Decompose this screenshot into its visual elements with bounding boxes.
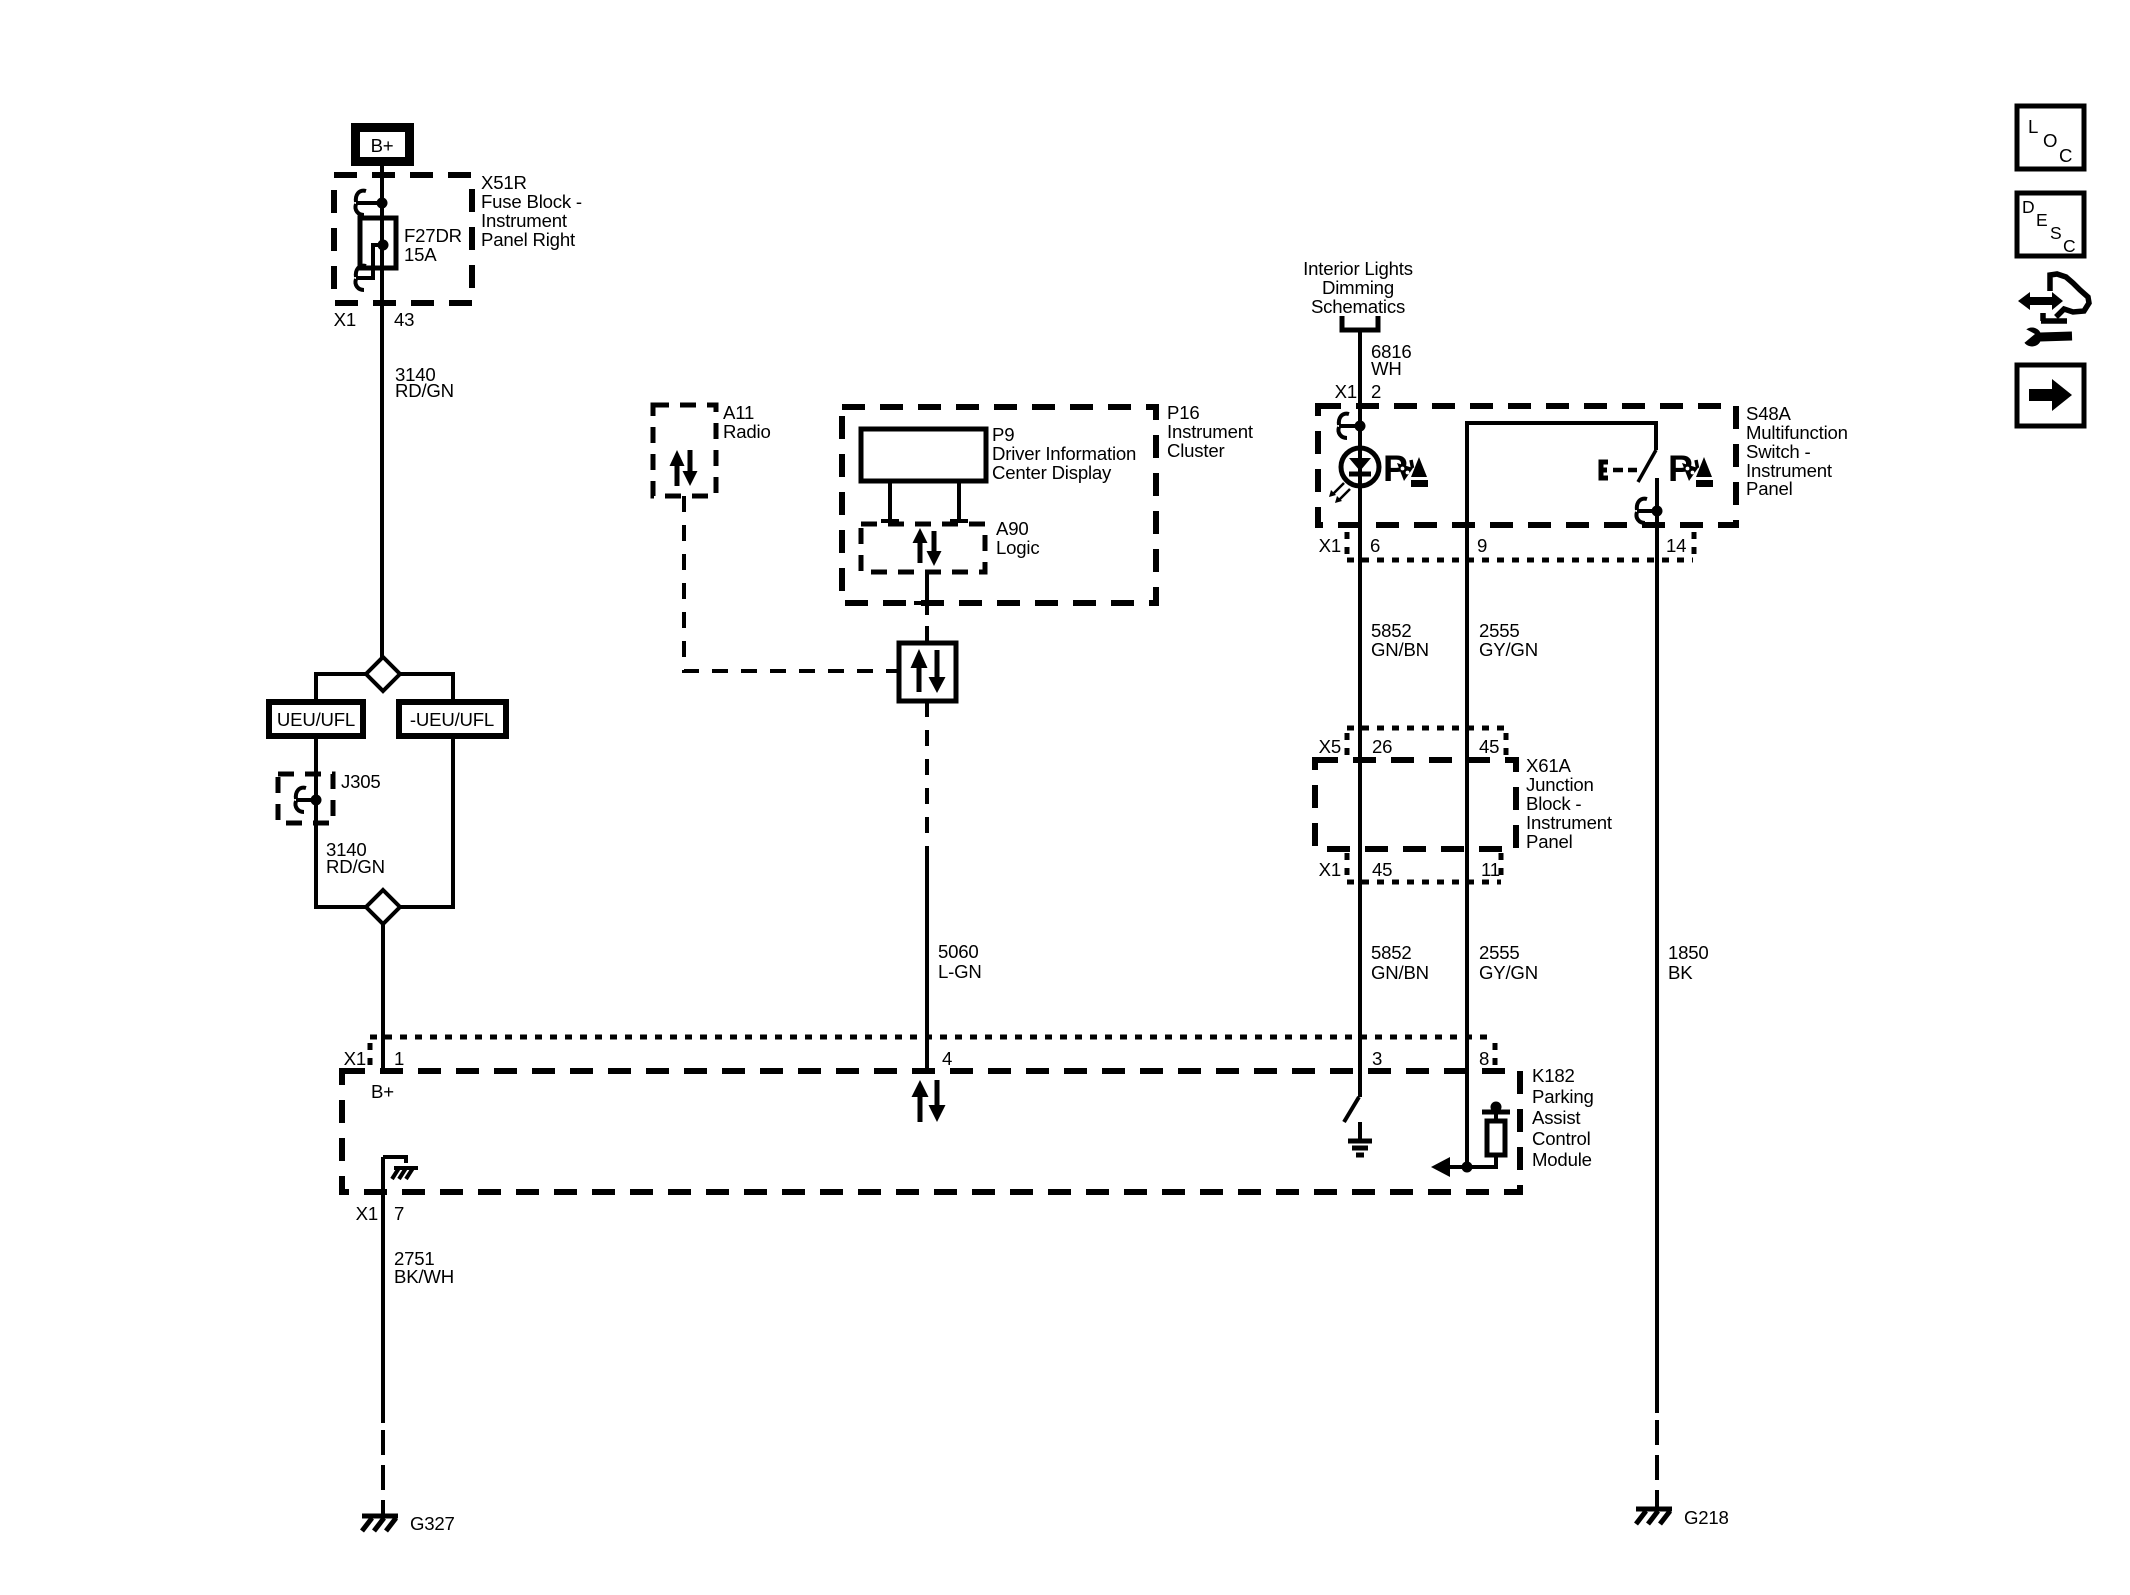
terminal hook at fuse bottom	[355, 266, 366, 290]
wire label 3140 RD/GN (lower)	[326, 839, 385, 877]
ground symbol inside K182	[1348, 1122, 1372, 1155]
icon button LOC	[2017, 106, 2084, 169]
wires through X61A	[1360, 760, 1467, 882]
svg-text:Multifunction: Multifunction	[1746, 422, 1848, 443]
svg-text:3: 3	[1372, 1048, 1382, 1069]
dashed wire into gateway box	[925, 626, 929, 643]
svg-text:45: 45	[1372, 859, 1392, 880]
serial data gateway box	[899, 643, 956, 701]
svg-text:Parking: Parking	[1532, 1086, 1594, 1107]
junction dot and continuation arrow inside K182	[1431, 1157, 1473, 1177]
svg-text:X1: X1	[356, 1203, 378, 1224]
svg-text:UEU/UFL: UEU/UFL	[277, 709, 355, 730]
svg-text:5852: 5852	[1371, 620, 1412, 641]
svg-text:Dimming: Dimming	[1322, 277, 1394, 298]
connector pin row X1 of S48A	[1319, 532, 1694, 560]
wire X61A to K182 pin 3, circuit 5852 GN/BN	[1360, 882, 1429, 1071]
svg-text:Block -: Block -	[1526, 793, 1581, 814]
svg-text:A11: A11	[723, 402, 754, 423]
fuse block connector box X51R	[334, 172, 582, 303]
svg-text:6: 6	[1370, 535, 1380, 556]
svg-text:RD/GN: RD/GN	[395, 380, 454, 401]
svg-text:8: 8	[1479, 1048, 1489, 1069]
dashed wire below gateway box	[925, 701, 929, 853]
svg-text:BK/WH: BK/WH	[394, 1266, 454, 1287]
svg-text:WH: WH	[1371, 358, 1402, 379]
svg-text:Control: Control	[1532, 1128, 1591, 1149]
wire to S48A pin 2, circuit 6816 WH	[1335, 330, 1412, 448]
svg-text:Radio: Radio	[723, 421, 771, 442]
svg-text:2: 2	[1371, 381, 1381, 402]
serial data arrows inside A11	[670, 450, 698, 486]
svg-text:X51R: X51R	[481, 172, 527, 193]
svg-text:-UEU/UFL: -UEU/UFL	[410, 709, 494, 730]
internal chassis ground near K182 pin 7	[383, 1157, 418, 1179]
fuse F27DR 15A	[356, 218, 462, 278]
svg-text:11: 11	[1481, 859, 1500, 880]
connector pin row X5 of X61A	[1319, 728, 1506, 757]
dashed wire to ground G218	[1655, 1420, 1659, 1507]
multifunction switch S48A	[1318, 403, 1848, 525]
svg-text:BK: BK	[1668, 962, 1693, 983]
svg-text:5852: 5852	[1371, 942, 1412, 963]
svg-text:Interior Lights: Interior Lights	[1303, 258, 1413, 279]
wire S48A pin 14 to ground, circuit 1850 BK	[1657, 511, 1709, 1413]
svg-text:J305: J305	[341, 771, 381, 792]
svg-text:X5: X5	[1319, 736, 1341, 757]
svg-text:Panel: Panel	[1746, 478, 1793, 499]
svg-text:43: 43	[394, 309, 414, 330]
switch inside K182 at pin 3	[1344, 1071, 1360, 1122]
svg-text:X61A: X61A	[1526, 755, 1571, 776]
icon button DESC	[2017, 193, 2084, 256]
svg-text:G218: G218	[1684, 1507, 1729, 1528]
svg-text:Instrument: Instrument	[1526, 812, 1613, 833]
connector pin row X1 of X61A	[1319, 853, 1501, 882]
dashed wire to ground G327	[381, 1430, 385, 1514]
svg-text:Driver Information: Driver Information	[992, 443, 1136, 464]
dashed data wire A11 to gateway box	[684, 496, 899, 671]
logic block A90	[861, 518, 1039, 572]
svg-text:Logic: Logic	[996, 537, 1039, 558]
wire right leg -UEU/UFL down	[400, 736, 453, 907]
net label UEU/UFL	[269, 702, 363, 736]
svg-text:P9: P9	[992, 424, 1014, 445]
svg-text:X1: X1	[334, 309, 356, 330]
junction block X61A	[1315, 755, 1613, 852]
wire fuse to diamond node, circuit 3140 RD/GN	[334, 203, 454, 657]
parking assist icon left	[1383, 448, 1428, 489]
ground G327	[362, 1513, 455, 1534]
terminal hook at fuse top	[355, 191, 387, 215]
svg-text:45: 45	[1479, 736, 1499, 757]
svg-text:4: 4	[942, 1048, 952, 1069]
icon button forward arrow	[2017, 365, 2084, 426]
net label -UEU/UFL	[399, 702, 506, 736]
connector pin row X1 of K182	[344, 1037, 1495, 1069]
svg-text:S48A: S48A	[1746, 403, 1791, 424]
svg-text:F27DR: F27DR	[404, 225, 462, 246]
terminal hook at S48A pin 2	[1338, 414, 1365, 438]
svg-text:Module: Module	[1532, 1149, 1592, 1170]
svg-text:1850: 1850	[1668, 942, 1709, 963]
svg-text:Panel Right: Panel Right	[481, 229, 576, 250]
svg-text:L-GN: L-GN	[938, 961, 982, 982]
svg-text:X1: X1	[1335, 381, 1357, 402]
svg-text:7: 7	[394, 1203, 404, 1224]
svg-text:B+: B+	[371, 1081, 394, 1102]
svg-text:K182: K182	[1532, 1065, 1575, 1086]
display P9 Driver Information Center Display	[861, 424, 1136, 483]
svg-text:GN/BN: GN/BN	[1371, 962, 1429, 983]
switch actuator E with mechanical link	[1601, 462, 1637, 478]
svg-text:A90: A90	[996, 518, 1028, 539]
svg-text:Cluster: Cluster	[1167, 440, 1225, 461]
svg-text:Junction: Junction	[1526, 774, 1594, 795]
terminal hook at S48A pin 14	[1636, 499, 1662, 523]
wire diamond to K182 pin 1	[381, 924, 385, 1071]
wire X61A to K182 pin 8, circuit 2555 GY/GN	[1467, 882, 1538, 1167]
serial data arrows at K182 pin 4	[912, 1080, 946, 1122]
wire to K182 pin 4, circuit 5060 L-GN	[927, 853, 982, 1071]
off-page connector bracket	[1342, 316, 1378, 330]
svg-text:O: O	[2043, 130, 2057, 151]
svg-text:2555: 2555	[1479, 620, 1520, 641]
instrument cluster P16	[842, 402, 1254, 603]
resistor inside K182 at pin 8	[1447, 1102, 1510, 1168]
svg-text:P16: P16	[1167, 402, 1199, 423]
switch blade in S48A	[1638, 450, 1657, 511]
wire P9 right leg to A90	[950, 481, 968, 521]
svg-text:X1: X1	[1319, 859, 1341, 880]
ground G218	[1636, 1507, 1729, 1528]
wire S48A pin 6 to X61A, circuit 5852 GN/BN	[1360, 487, 1429, 760]
svg-text:Assist: Assist	[1532, 1107, 1581, 1128]
wire S48A pin 9 to X61A, circuit 2555 GY/GN	[1467, 527, 1538, 760]
svg-text:C: C	[2063, 236, 2076, 256]
svg-text:X1: X1	[1319, 535, 1341, 556]
wire P9 left leg to A90	[881, 481, 899, 521]
svg-text:1: 1	[394, 1048, 404, 1069]
LED backlight lamp in S48A	[1329, 448, 1379, 503]
svg-text:D: D	[2022, 197, 2035, 217]
svg-text:RD/GN: RD/GN	[326, 856, 385, 877]
module K182 Parking Assist Control Module	[342, 1065, 1594, 1192]
svg-text:15A: 15A	[404, 244, 437, 265]
svg-text:Instrument: Instrument	[1167, 421, 1254, 442]
svg-text:G327: G327	[410, 1513, 455, 1534]
splice J305	[278, 771, 381, 823]
svg-text:14: 14	[1666, 535, 1686, 556]
wire A90 to P16 boundary	[914, 572, 940, 615]
splice diamond node (bottom)	[366, 890, 400, 924]
splice diamond node (top)	[316, 657, 453, 702]
svg-text:B+: B+	[371, 135, 394, 156]
internal wire pin 9 to switch	[1467, 423, 1656, 527]
parking assist icon right	[1668, 448, 1713, 489]
svg-text:Center Display: Center Display	[992, 462, 1112, 483]
svg-text:X1: X1	[344, 1048, 366, 1069]
power symbol B+	[351, 123, 414, 166]
svg-text:5060: 5060	[938, 941, 979, 962]
svg-text:C: C	[2059, 145, 2072, 166]
svg-text:26: 26	[1372, 736, 1392, 757]
svg-text:GY/GN: GY/GN	[1479, 639, 1538, 660]
serial data arrows inside A90	[913, 528, 942, 566]
wire K182 pin 7 down, circuit 2751 BK/WH	[356, 1157, 454, 1423]
svg-text:GN/BN: GN/BN	[1371, 639, 1429, 660]
svg-text:E: E	[2036, 210, 2048, 230]
icon vehicle with arrow and wrench	[2018, 274, 2089, 347]
svg-text:Instrument: Instrument	[481, 210, 568, 231]
svg-text:S: S	[2050, 223, 2062, 243]
svg-text:9: 9	[1477, 535, 1487, 556]
svg-text:L: L	[2028, 116, 2038, 137]
svg-text:2555: 2555	[1479, 942, 1520, 963]
wire B+ to fuse F27DR	[380, 166, 384, 202]
radio A11	[653, 402, 771, 496]
svg-text:Fuse Block -: Fuse Block -	[481, 191, 582, 212]
svg-text:GY/GN: GY/GN	[1479, 962, 1538, 983]
svg-text:Switch -: Switch -	[1746, 441, 1811, 462]
wire left leg UEU/UFL down	[316, 736, 366, 907]
svg-text:Panel: Panel	[1526, 831, 1573, 852]
net title Interior Lights Dimming Schematics	[1303, 258, 1413, 317]
svg-text:Schematics: Schematics	[1311, 296, 1405, 317]
